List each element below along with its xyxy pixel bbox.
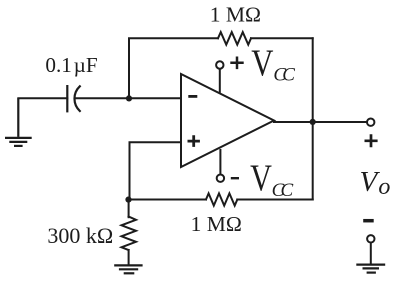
node C (noninverting/300k junction): [125, 197, 131, 203]
svg-text:o: o: [378, 174, 390, 200]
node A (inverting input junction): [126, 95, 132, 101]
svg-text:0.1 µF: 0.1 µF: [45, 53, 97, 77]
svg-text:CC: CC: [272, 180, 294, 201]
wire bottom rail right segment: [237, 199, 312, 201]
svg-text:V: V: [250, 158, 272, 200]
wire -Vcc stub: [219, 150, 221, 174]
wire 300k to ground: [128, 250, 130, 265]
capacitor C1 0.1uF: [67, 86, 80, 111]
terminal output +: [367, 119, 374, 126]
ground (left input): [5, 98, 32, 146]
wire node to 300k resistor: [128, 200, 130, 218]
minus sign output: [363, 219, 374, 223]
wire output - to ground: [370, 243, 372, 265]
terminal output -: [367, 235, 374, 242]
ground (below 300k): [114, 265, 142, 273]
wire bottom rail left segment: [128, 199, 206, 201]
wire capacitor to inverting input: [75, 97, 181, 99]
terminal +Vcc: [216, 61, 223, 68]
svg-text:V: V: [360, 166, 381, 198]
wire +Vcc stub: [219, 69, 221, 92]
minus sign of -Vcc label: [231, 177, 239, 179]
svg-text:1 MΩ: 1 MΩ: [191, 212, 242, 236]
node B (output junction): [310, 119, 316, 125]
plus sign of +Vcc label: [230, 57, 243, 70]
svg-text:CC: CC: [273, 64, 295, 85]
wire from left ground to capacitor: [18, 97, 67, 99]
op-amp U1: [181, 74, 274, 167]
resistor R1 1 MOhm (top feedback): [218, 32, 251, 45]
resistor R3 300 kOhm (vertical): [122, 217, 137, 251]
op-amp plus sign: [188, 135, 200, 147]
wire noninverting input: [130, 142, 182, 199]
svg-text:1 MΩ: 1 MΩ: [210, 3, 261, 27]
wire output: [274, 121, 367, 123]
terminal -Vcc: [217, 175, 224, 182]
svg-text:V: V: [251, 43, 274, 85]
wire top rail right segment: [251, 37, 313, 39]
wire right vertical (top rail to bottom rail through output node): [312, 38, 314, 199]
resistor R2 1 MOhm (bottom): [206, 193, 237, 205]
op-amp minus sign: [188, 95, 197, 98]
ground (output): [356, 265, 385, 273]
svg-text:300 kΩ: 300 kΩ: [47, 223, 113, 248]
plus sign output: [365, 134, 378, 147]
wire top-left vertical from input node to top rail: [129, 38, 218, 98]
